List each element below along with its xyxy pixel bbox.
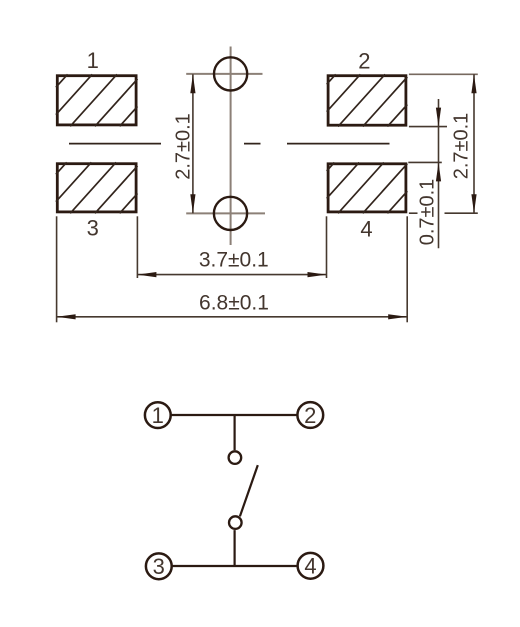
pad P4 (hatched SMD pad, bottom-right) — [327, 162, 408, 213]
svg-text:2.7±0.1: 2.7±0.1 — [451, 113, 473, 180]
pad P3 (hatched SMD pad, bottom-left) — [56, 162, 138, 213]
svg-text:4: 4 — [304, 554, 316, 579]
schematic: terminal circle 3 — [146, 553, 172, 579]
schematic: terminal circle 4 — [298, 553, 324, 579]
crosshair line of hole H1 — [186, 73, 262, 75]
horizontal center line (dashed) — [69, 143, 390, 145]
dimension 6.8±0.1 (outer pad distance) — [57, 216, 408, 322]
crosshair line of hole H2 — [186, 212, 265, 214]
svg-text:1: 1 — [87, 48, 99, 73]
svg-text:1: 1 — [152, 403, 164, 428]
wire: top bus between terminals 1 and 2 — [172, 414, 297, 416]
dimension 0.7±0.1 (pad gap) — [408, 99, 447, 248]
switch upper contact circle — [229, 451, 242, 464]
switch lower contact circle — [229, 516, 242, 529]
svg-text:3.7±0.1: 3.7±0.1 — [199, 248, 269, 271]
svg-text:2: 2 — [358, 48, 370, 73]
wire: stem from top bus to upper contact — [234, 415, 236, 450]
svg-text:4: 4 — [360, 217, 372, 242]
svg-text:3: 3 — [87, 215, 99, 240]
hole H1 (top locating hole) — [214, 57, 247, 90]
hole H2 (bottom locating hole) — [214, 197, 247, 230]
svg-text:6.8±0.1: 6.8±0.1 — [199, 292, 269, 315]
svg-text:0.7±0.1: 0.7±0.1 — [417, 179, 439, 246]
switch actuator lever (open) — [240, 465, 258, 516]
wire: stem from lower contact to bottom bus — [234, 530, 236, 566]
svg-text:2: 2 — [304, 403, 316, 428]
dimension 2.7±0.1 (right, pad span) — [409, 74, 478, 213]
wire: bottom bus between terminals 3 and 4 — [173, 565, 298, 567]
pad P2 (hatched SMD pad, top-right) — [327, 74, 408, 126]
dimension 3.7±0.1 (inner pad distance) — [137, 216, 326, 278]
dimension 2.7±0.1 (left, hole pitch) — [173, 74, 196, 213]
schematic: terminal circle 2 — [297, 402, 323, 428]
schematic: terminal circle 1 — [145, 402, 171, 428]
svg-text:2.7±0.1: 2.7±0.1 — [173, 113, 195, 180]
pad P1 (hatched SMD pad, top-left) — [56, 74, 138, 126]
svg-text:3: 3 — [153, 554, 165, 579]
vertical center line through holes — [230, 47, 232, 246]
